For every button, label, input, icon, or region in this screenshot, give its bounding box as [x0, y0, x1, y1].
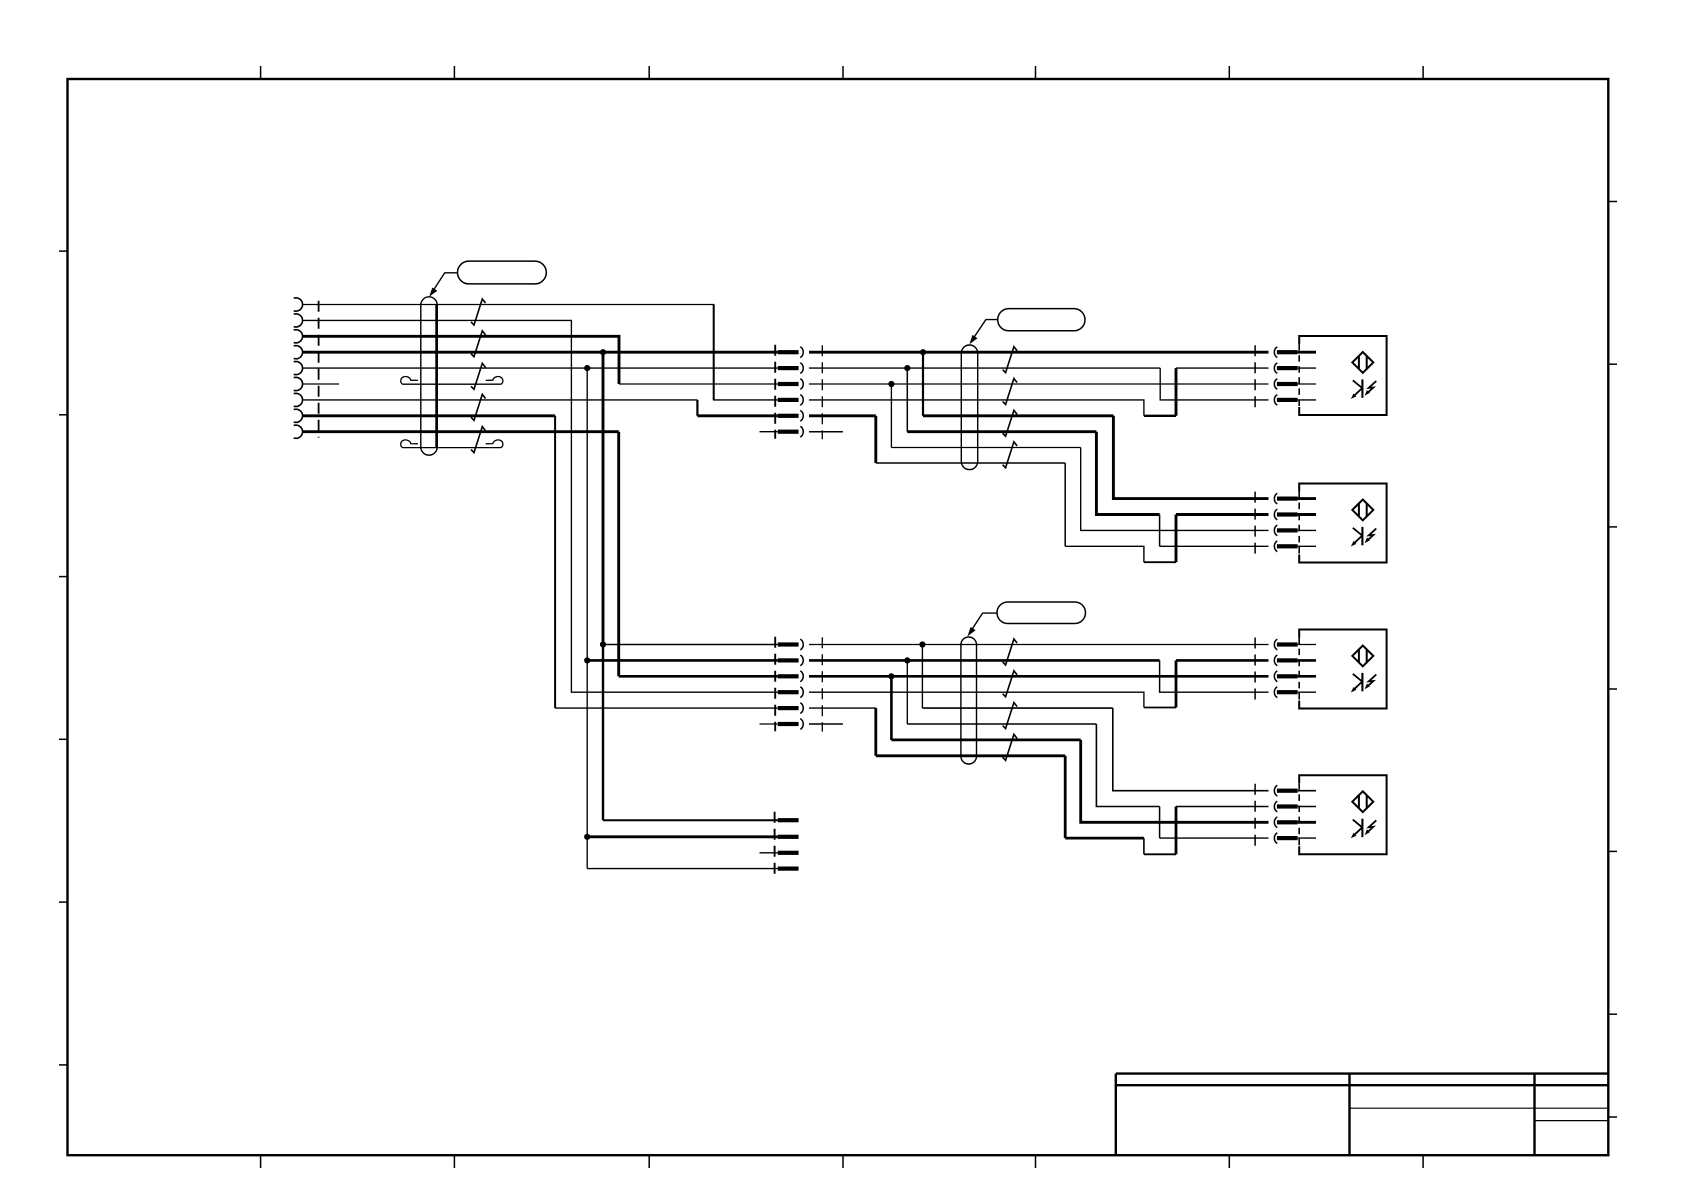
wire count slash mark at x=1009 y=716.05: [1003, 703, 1018, 729]
terminal block TB2 dashed rail right: [821, 637, 823, 731]
junction node at 907.3,368.1: [904, 365, 910, 371]
wire TB2-1 to sensor B3 pin1: [809, 644, 1269, 646]
wire node F drop: [921, 645, 923, 709]
wire J1 pin7 to TB1 terminal5 (thick): [697, 414, 777, 417]
wire TB2 terminal6 right stub: [809, 723, 843, 725]
callout 1 arrowhead: [429, 288, 437, 297]
wire to sensor B4 feed 3 (thick): [891, 739, 1080, 742]
wire TB2-5 right: [809, 707, 876, 709]
junction node at 603,644.5: [600, 641, 606, 647]
wire jog bottom: [1144, 853, 1176, 855]
junction node at 891.4,384.0: [888, 381, 894, 387]
junction node at 923,352.2: [920, 349, 926, 355]
wire J1 pin9 (thick): [303, 430, 619, 433]
wire J1 pin3 (thick) jog down: [303, 336, 620, 384]
wire jog bottom: [1144, 561, 1176, 563]
TB1 terminal 2 (ferrule and socket): [778, 366, 799, 370]
sensor B4 pin 3: [1274, 817, 1277, 828]
wire TB2 terminal6 left stub: [760, 723, 778, 725]
sensor B3 proximity diamond symbol: [1352, 646, 1373, 667]
sensor B3 pin 3: [1274, 671, 1277, 682]
wire node D drop: [906, 368, 908, 432]
connector J1 dashed grouping line: [318, 301, 320, 438]
TB2 terminal 6 (ferrule and socket): [778, 722, 799, 726]
wire to sensor B1 pin2: [1176, 367, 1269, 369]
wire branch down to stub T1: [602, 645, 604, 821]
wire right (thick): [1065, 837, 1144, 840]
wire to stub terminal T4: [587, 868, 778, 870]
wire J1 pin2 to TB2 terminal4: [303, 320, 778, 692]
callout 3 leader line: [969, 613, 997, 634]
wire to stub terminal T1: [603, 819, 778, 821]
wire J1 pin4 to TB1 terminal1 (thick): [303, 351, 778, 354]
wire to stub terminal T2 (thick): [587, 835, 778, 838]
wire down to sensor B4 pin1: [1113, 708, 1269, 791]
wire J1 pin3 to TB1 terminal3: [619, 383, 778, 385]
wire TB1-1 to sensor B1 pin1 (thick): [809, 351, 1269, 354]
wire node G drop: [906, 660, 908, 724]
sensor B4 pin 4: [1274, 833, 1277, 844]
junction node at 891.4,676.3: [888, 673, 894, 679]
wire to sensor B2 pin3: [1081, 448, 1269, 531]
wire J1 pin9 down to lower half: [617, 432, 620, 677]
wire toward sensor B4 feed 4 (thick): [876, 754, 1065, 757]
sensor B2 pin 2: [1274, 509, 1277, 520]
wire branch node A down to lower half: [602, 352, 605, 644]
callout 2 leader line: [971, 320, 998, 342]
wire count slash mark at x=478 y=440.1: [471, 427, 486, 453]
cable shield symbol W3: [961, 637, 977, 764]
sensor B4 receiver arrow + light symbol: [1351, 819, 1377, 839]
wire branch down to stub T2: [586, 660, 588, 836]
wire jog bottom segment: [1144, 707, 1176, 709]
terminal block TB2 dashed rail left: [774, 637, 776, 731]
wire TB1-4 jog down: [809, 400, 1144, 416]
sensor B1 proximity diamond symbol: [1352, 352, 1373, 373]
wire to sensor B2 feed (thick): [923, 414, 1113, 417]
wire count slash mark at x=478 y=312.45: [471, 299, 486, 325]
TB2 terminal 2 (ferrule and socket): [778, 658, 799, 662]
shield drain wire with pigtail loops at y=447.6: [402, 447, 501, 449]
wire TB2-2 toward sensor B3 (thick): [809, 659, 1160, 662]
wire down to stub T4: [586, 837, 588, 869]
wire vertical J1 pin1 jog: [713, 305, 715, 400]
junction node at 922.4,644.5: [919, 641, 925, 647]
wire to sensor B2 pin4: [1160, 545, 1269, 547]
sensor B3 dashed connector line: [1254, 638, 1256, 702]
wire down (thick): [1064, 756, 1067, 838]
TB1 terminal 3 (ferrule and socket): [778, 382, 799, 386]
sensor B1 pin 4: [1274, 395, 1277, 406]
wire count slash mark at x=478 y=344.25: [471, 331, 486, 357]
wire jog down: [1143, 838, 1145, 854]
wire TB1-3 to sensor B1 pin3: [809, 383, 1269, 385]
wire count slash mark at x=1009 y=455.25: [1003, 442, 1018, 468]
photoelectric sensor B2 body: [1299, 484, 1386, 563]
callout label 3 (empty stadium balloon): [997, 602, 1086, 624]
TB2 terminal 4 (ferrule and socket): [778, 690, 799, 694]
wire down: [1064, 463, 1066, 546]
wire jog down: [1159, 807, 1161, 839]
junction node at 587.2,836.8: [584, 834, 590, 840]
cable shield W1 right side emphasis: [435, 304, 438, 448]
callout 1 leader line: [431, 273, 458, 295]
TB1 terminal 6 (ferrule and socket): [778, 430, 799, 434]
wire count slash mark at x=1009 y=747.85: [1003, 734, 1018, 760]
wire TB1 terminal6 left stub: [760, 431, 778, 433]
shield drain wire with pigtail loops at y=384.2: [402, 383, 501, 385]
wire branch to TB2 terminal1: [603, 644, 778, 646]
sensor B4 pin 1: [1274, 785, 1277, 796]
wire to sensor B4 pin2: [1176, 806, 1269, 808]
junction node at 587.2,368.1: [584, 365, 590, 371]
TB1 terminal 5 (ferrule and socket): [778, 414, 799, 418]
sensor B2 pin 3: [1274, 525, 1277, 536]
wire TB1 terminal6 right stub: [809, 431, 843, 433]
wire J1 pin8 to TB2 terminal5: [555, 707, 778, 709]
sensor B2 dashed connector line: [1254, 492, 1256, 556]
wire to sensor B4 feed: [922, 707, 1112, 709]
wire down toward sensor B2: [1096, 432, 1159, 515]
photoelectric sensor B3 body: [1299, 630, 1386, 709]
wire count slash mark at x=1009 y=360.15: [1003, 347, 1018, 373]
wire to sensor B4 pin4: [1160, 837, 1269, 839]
sensor B2 pin 1: [1274, 493, 1277, 504]
wire jog: [1065, 546, 1144, 562]
wire node C drop: [922, 352, 924, 416]
wire J1 pin9 to TB2 terminal3: [619, 675, 778, 678]
TB1 terminal 1 (ferrule and socket): [778, 350, 799, 354]
wire J1 pin7 jog down: [696, 400, 698, 416]
photoelectric sensor B1 body: [1299, 336, 1386, 415]
wire count slash mark at x=478 y=407.85: [471, 394, 486, 420]
wire count slash mark at x=1009 y=652.45: [1003, 639, 1018, 665]
photoelectric sensor B4 body: [1299, 775, 1386, 854]
sensor B1 dashed connector line: [1254, 345, 1256, 409]
wire count slash mark at x=1009 y=423.75: [1003, 410, 1018, 436]
callout label 1 (empty stadium balloon): [458, 261, 547, 284]
wire branch to TB2 terminal2: [587, 659, 778, 662]
sensor B2 receiver arrow + light symbol: [1351, 527, 1377, 547]
wire node H drop (thick): [890, 676, 893, 740]
wire jog up (thick): [1175, 368, 1178, 416]
terminal block TB1 dashed rail right: [821, 345, 823, 439]
wire node E drop: [890, 384, 892, 448]
junction node at 587.2,660.4: [584, 657, 590, 663]
junction node at 907.3,660.4: [904, 657, 910, 663]
wire jog up (thick): [1175, 807, 1178, 855]
wire J1 pin6 stub: [303, 383, 340, 385]
sensor B1 pin 2: [1274, 363, 1277, 374]
connector J1 (9-pin cable connector): [294, 298, 303, 438]
wire down toward sensor B4: [1096, 724, 1159, 807]
wire TB1-5 right (thick): [809, 414, 876, 417]
junction node at 603,352.2: [600, 349, 606, 355]
wire TB2-4 jog down: [809, 692, 1144, 707]
TB2 terminal 5 (ferrule and socket): [778, 706, 799, 710]
wire down (thick): [874, 708, 877, 756]
wire J1 pin5 to TB1 terminal2: [303, 367, 778, 369]
sensor B1 pin 1: [1274, 347, 1277, 358]
wire down to sensor B2 pin1 (thick): [1113, 416, 1268, 499]
wire jog to sensor B3 pin4: [1160, 660, 1269, 692]
cable shield symbol W2: [961, 345, 977, 470]
stub block TB3 dashed rail: [774, 812, 776, 877]
callout 3 arrowhead: [968, 627, 976, 636]
wire to sensor B2 feed 2 (thick): [907, 430, 1096, 433]
wire count slash mark at x=1009 y=391.95: [1003, 378, 1018, 404]
wire jog down: [1159, 515, 1161, 547]
TB3 stub terminal 2 (ferrule): [778, 835, 799, 839]
wire TB1-2 toward sensor B1: [809, 367, 1160, 369]
wire TB2-3 to sensor B3 pin3 (thick): [809, 675, 1269, 678]
wire J1 pin7: [303, 399, 698, 401]
TB2 terminal 3 (ferrule and socket): [778, 674, 799, 678]
callout label 2 (empty stadium balloon): [998, 309, 1085, 331]
wire to sensor B2 pin2 (thick): [1176, 513, 1269, 516]
wire jog bottom segment: [1144, 415, 1176, 417]
TB3 stub terminal 1 (ferrule): [778, 818, 799, 822]
sensor B3 pin 4: [1274, 687, 1277, 698]
wire to sensor B3 pin2 (thick): [1176, 659, 1269, 662]
callout 2 arrowhead: [969, 335, 977, 344]
sensor B1 pin 3: [1274, 379, 1277, 390]
sensor B2 pin 4: [1274, 541, 1277, 552]
wire count slash mark at x=1009 y=684.25: [1003, 671, 1018, 697]
terminal block TB1 dashed rail left: [774, 345, 776, 439]
TB2 terminal 1 (ferrule and socket): [778, 642, 799, 646]
wire toward sensor B2 feed 4: [876, 462, 1065, 464]
sensor B3 pin 1: [1274, 639, 1277, 650]
sensor B3 receiver arrow + light symbol: [1351, 673, 1377, 693]
sensor B4 dashed connector line: [1254, 784, 1256, 848]
wire to sensor B4 pin3 (thick): [1081, 740, 1269, 822]
wire count slash mark at x=478 y=376.8: [471, 363, 486, 389]
wire to sensor B4 feed 2: [907, 723, 1096, 725]
wire J1 pin8 down to lower half: [554, 416, 556, 708]
wire J1 pin1 to TB1 terminal4: [303, 305, 778, 400]
wire jog up (thick): [1175, 515, 1178, 563]
sensor B3 pin 2: [1274, 655, 1277, 666]
sensor B4 pin 2: [1274, 801, 1277, 812]
wire down (thick): [874, 416, 877, 463]
wire J1 pin8 (thick): [303, 414, 556, 417]
wire to sensor B2 feed 3: [891, 447, 1080, 449]
TB3 stub terminal 3 (ferrule): [778, 851, 799, 855]
sensor B1 receiver arrow + light symbol: [1351, 379, 1377, 399]
wire TB3 stub3 left lead: [760, 852, 778, 854]
cable shield symbol W1: [421, 297, 437, 455]
sensor B2 proximity diamond symbol: [1352, 500, 1373, 521]
TB1 terminal 4 (ferrule and socket): [778, 398, 799, 402]
TB3 stub terminal 4 (ferrule): [778, 867, 799, 871]
wire jog to sensor B1 pin4: [1160, 368, 1268, 400]
sensor B4 proximity diamond symbol: [1352, 791, 1373, 812]
wire jog up (thick): [1175, 660, 1178, 707]
wire branch node B down: [586, 368, 588, 660]
